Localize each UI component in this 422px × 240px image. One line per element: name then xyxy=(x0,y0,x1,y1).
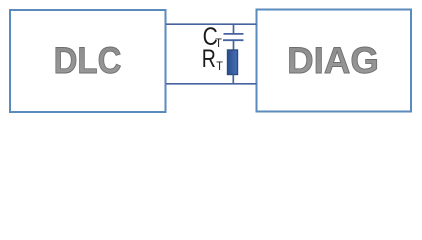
svg-text:DLC: DLC xyxy=(54,40,122,81)
resistor RT body xyxy=(228,50,238,75)
capacitor CT plate 1 xyxy=(224,33,244,35)
wire stub top to capacitor xyxy=(233,24,235,34)
box DIAG xyxy=(257,10,412,112)
svg-text:T: T xyxy=(216,61,223,73)
svg-text:DIAG: DIAG xyxy=(287,39,379,81)
wire resistor to bottom xyxy=(232,75,234,85)
svg-text:T: T xyxy=(215,38,222,50)
box DLC xyxy=(10,10,166,112)
wire capacitor to resistor xyxy=(233,40,235,50)
wire top xyxy=(166,23,257,25)
wire bottom xyxy=(166,83,257,85)
capacitor CT plate 2 xyxy=(223,39,244,41)
svg-text:R: R xyxy=(202,45,216,73)
